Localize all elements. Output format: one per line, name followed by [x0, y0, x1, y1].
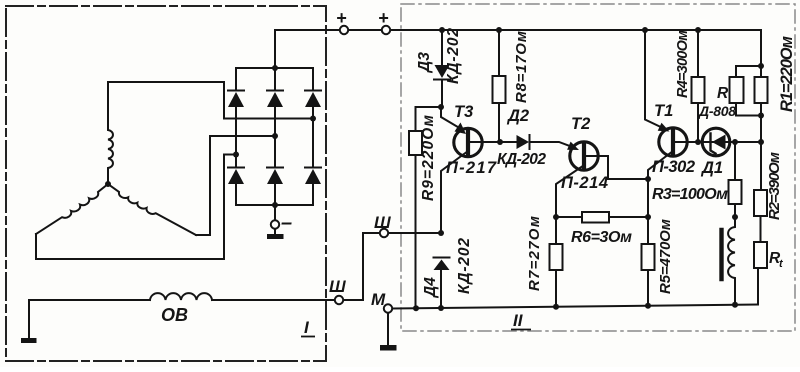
terminal Sh left	[335, 296, 343, 304]
svg-text:Д3: Д3	[416, 52, 433, 74]
wire T2 base lead	[586, 156, 648, 179]
ground (bridge minus)	[267, 234, 284, 239]
wire R8 top lead	[498, 30, 500, 76]
wire minus to ground	[274, 229, 276, 234]
D1 zener symbol	[711, 134, 726, 154]
svg-text:R5=470Ом: R5=470Ом	[657, 219, 674, 294]
T3 emitter arrow	[455, 123, 467, 135]
svg-text:R6=3Ом: R6=3Ом	[571, 229, 632, 246]
stator winding: right coil	[108, 184, 196, 235]
svg-text:Т3: Т3	[454, 103, 473, 121]
wire bus corner down to R1	[760, 30, 762, 66]
svg-text:R1=220Ом: R1=220Ом	[778, 36, 796, 112]
svg-text:ОВ: ОВ	[161, 305, 188, 325]
svg-text:П-217: П-217	[446, 159, 497, 177]
ground (block I left)	[21, 338, 37, 343]
svg-text:Ш: Ш	[374, 213, 391, 232]
wire branch3 upper lead	[312, 68, 314, 90]
terminal +1	[340, 26, 348, 34]
wire phase B: right winding to branch2	[196, 136, 275, 235]
wire R5 bottom lead	[647, 270, 649, 306]
diode VD-b3-bot	[305, 168, 321, 185]
node R6/R5/T1 collector	[645, 214, 651, 220]
stator winding: top coil	[108, 82, 113, 184]
bridge top bus	[236, 67, 313, 69]
svg-text:+: +	[336, 8, 347, 28]
resistor R	[730, 77, 744, 103]
wire branch2 middle	[274, 107, 276, 136]
svg-text:Д4: Д4	[422, 277, 439, 299]
node M/relay coil	[732, 302, 738, 308]
node M/R7	[553, 304, 559, 310]
resistor R5	[642, 244, 655, 270]
wire T2 collector	[556, 167, 582, 218]
diode VD-b1-bot	[228, 168, 244, 185]
transistor T3 body	[454, 128, 482, 156]
diode D3	[434, 65, 450, 80]
resistor R4	[692, 77, 705, 103]
relay coil winding	[728, 217, 735, 305]
svg-text:R2=390Ом: R2=390Ом	[766, 152, 783, 220]
node R3/relay coil	[732, 214, 738, 220]
wire R6 right lead	[609, 216, 648, 218]
block I border (dash-dot frame)	[6, 6, 326, 361]
wire D2 to T2 emitter	[530, 142, 575, 148]
wire phase C: left winding to branch1	[36, 155, 236, 260]
node phase C on branch1	[233, 152, 239, 158]
wire to minus terminal	[274, 205, 276, 220]
wire R3 bottom lead	[734, 204, 736, 217]
resistor R3	[729, 180, 742, 204]
svg-text:КД-202: КД-202	[497, 151, 546, 168]
resistor R1	[755, 77, 768, 103]
wire phase A: top winding to branch3	[108, 82, 313, 119]
resistor R8	[493, 76, 506, 103]
wire branch leads to bottom bus	[235, 184, 237, 205]
node plus/D3	[439, 27, 445, 33]
wire M bus	[393, 305, 759, 309]
wire R5 top lead	[647, 217, 649, 244]
node T2 collector/R6/R7	[553, 214, 559, 220]
diode VD-b2-bot	[267, 168, 283, 185]
node plus/R8	[496, 27, 502, 33]
svg-text:R4=300Ом: R4=300Ом	[675, 30, 691, 98]
svg-text:Т2: Т2	[571, 115, 590, 133]
wire R bottom lead	[736, 103, 761, 116]
wire R8 bottom lead	[498, 103, 500, 142]
node T3 emitter/R9	[438, 104, 444, 110]
resistor Rt	[754, 242, 767, 268]
wire R6 left lead	[556, 216, 582, 218]
T1 emitter arrow	[658, 123, 670, 132]
terminal Sh top	[380, 229, 388, 237]
transistor T2 body	[570, 142, 598, 170]
svg-text:R7=27Ом: R7=27Ом	[526, 216, 543, 291]
wire T3 base lead	[470, 141, 517, 143]
zener diode D1 body	[702, 128, 730, 156]
svg-text:Д2: Д2	[506, 107, 529, 125]
node T1 collector/T2 base	[645, 176, 651, 182]
wire R2 to Rt	[760, 216, 762, 242]
node M/R9	[413, 305, 419, 311]
wire T1 collector	[648, 153, 671, 218]
node M/D4	[438, 305, 444, 311]
svg-text:R: R	[717, 85, 729, 102]
diode VD-b1-top	[228, 91, 244, 108]
bridge bottom bus	[236, 204, 313, 206]
node plus/R4	[695, 27, 701, 33]
svg-text:КД-202: КД-202	[445, 28, 462, 84]
node bridge bottom center	[272, 202, 278, 208]
node R/R1 top	[758, 63, 764, 69]
node phase A on branch3	[310, 116, 316, 122]
svg-text:КД-202: КД-202	[456, 238, 473, 294]
svg-text:R9=220Ом: R9=220Ом	[420, 114, 437, 201]
wire R9 bottom lead (crosses Sh bus, to M bus)	[415, 155, 417, 308]
wire R3 top lead	[734, 142, 736, 180]
svg-text:+: +	[378, 8, 389, 28]
svg-text:R3=100Ом: R3=100Ом	[652, 186, 728, 203]
resistor R7	[550, 244, 563, 270]
wire OV to Sh terminal	[212, 299, 335, 301]
terminal minus	[271, 220, 279, 228]
wire ground to OV winding	[29, 300, 150, 338]
svg-text:–: –	[281, 212, 292, 234]
node star center	[105, 181, 111, 187]
resistor R2	[754, 190, 767, 216]
svg-text:П-214: П-214	[561, 174, 608, 192]
wire D4 bottom lead	[440, 270, 442, 308]
svg-text:М: М	[371, 290, 386, 309]
wire branch2 upper lead	[274, 68, 276, 90]
wire T1 emitter lead	[645, 30, 666, 130]
node base wire/R2	[758, 139, 764, 145]
resistor R6	[582, 212, 609, 223]
T1 base bar	[671, 131, 675, 153]
wire down to base wire	[760, 116, 762, 142]
node R/R1 bottom	[758, 113, 764, 119]
wire R9 top lead	[416, 107, 442, 131]
wire branch1 upper lead	[235, 68, 237, 90]
resistor R9	[409, 131, 422, 155]
node R8/base T3	[497, 139, 503, 145]
wire T1 base lead to D1 and right	[675, 141, 761, 143]
wire M bus end up to Rt	[757, 268, 759, 305]
wire R2 top lead	[760, 142, 762, 190]
svg-text:Д-808: Д-808	[698, 103, 736, 119]
wire T3 emitter diagonal	[441, 107, 462, 130]
wire R7 top lead	[555, 217, 557, 244]
wire R top lead	[736, 66, 761, 77]
svg-text:R8=17Ом: R8=17Ом	[513, 31, 530, 103]
node phase B on branch2	[272, 133, 278, 139]
node plus/T1 emitter	[642, 27, 648, 33]
wire R1 bottom lead	[760, 103, 762, 116]
T3 base bar	[466, 132, 470, 154]
wire Sh bus into block II	[389, 232, 442, 234]
svg-text:Т1: Т1	[654, 102, 673, 120]
wire Sh-left to Sh-top	[344, 233, 380, 300]
relay coil core bar	[719, 230, 723, 279]
terminal +2	[382, 26, 390, 34]
ground (M terminal)	[380, 345, 397, 351]
wire T3 collector	[441, 153, 466, 234]
block II border (dash-dot frame)	[401, 4, 795, 331]
wire branch3 middle	[312, 107, 314, 119]
node D1/R3	[732, 139, 738, 145]
wire branch1 lower	[235, 155, 237, 168]
T2 base bar	[582, 145, 586, 167]
svg-text:П-302: П-302	[652, 158, 695, 176]
transistor T1 body	[659, 128, 687, 156]
node Sh bus / D4 / T3 collector	[438, 230, 444, 236]
wire D3 to emitter node	[441, 80, 442, 108]
svg-text:Д1: Д1	[700, 159, 723, 177]
terminal M	[384, 304, 392, 312]
wire D3 top lead	[441, 30, 443, 64]
field winding OV	[150, 293, 212, 300]
diode D4	[434, 258, 450, 271]
wire R4 top lead	[697, 30, 699, 77]
node R4/base wire	[695, 139, 701, 145]
diode VD-b3-top	[305, 91, 321, 108]
T2 emitter arrow	[567, 142, 579, 150]
svg-text:Ш: Ш	[329, 277, 346, 296]
wire M to ground	[387, 313, 389, 345]
diode D2	[517, 135, 530, 149]
stator winding: left coil	[36, 184, 108, 234]
wire branch1 middle	[235, 107, 237, 155]
wire R7 bottom lead	[555, 270, 557, 307]
diode VD-b2-top	[267, 91, 283, 108]
svg-text:II: II	[513, 311, 524, 330]
wire R1 top lead	[760, 66, 762, 77]
node bridge top center	[272, 65, 278, 71]
wire: plus bus from bridge to right edge	[275, 30, 761, 68]
node M/R5	[645, 303, 651, 309]
wire R4 bottom lead	[697, 103, 699, 142]
